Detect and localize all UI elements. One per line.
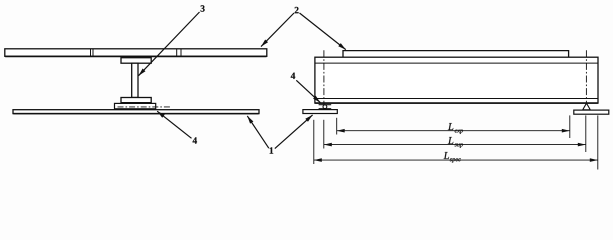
- extension line A specimen left: [313, 120, 315, 164]
- extension line C exp left: [336, 118, 338, 135]
- leader line 1 to support plate: [275, 115, 313, 149]
- label 2: [295, 7, 299, 13]
- left support axis centreline: [323, 50, 325, 113]
- extension line E support right: [585, 115, 587, 152]
- dimension line L spec: [314, 159, 598, 161]
- bottom deck plate: [13, 110, 259, 114]
- leader line 4 left view: [157, 111, 191, 138]
- right support knife edge: [583, 103, 591, 110]
- extension line B support left: [323, 120, 325, 149]
- left support roller top plate: [319, 104, 332, 106]
- deck plate bottom edge emphasis: [13, 113, 258, 115]
- left view: top slab plate: [5, 49, 267, 57]
- beam bottom skin line: [315, 98, 597, 100]
- leader line 2 to left view: [261, 13, 294, 47]
- top plate joint 2: [177, 49, 181, 56]
- right support axis centreline: [585, 50, 587, 109]
- I-beam top flange: [121, 58, 151, 64]
- dimension line L exp: [337, 130, 570, 132]
- label 4 left view: [193, 137, 197, 143]
- left support bearing plate: [303, 110, 337, 114]
- right view: beam body: [315, 57, 598, 103]
- leader line 2 to right view: [300, 13, 346, 50]
- left support roller bottom plate: [319, 108, 332, 110]
- extension line D exp right: [569, 115, 571, 138]
- beam bottom edge emphasis: [315, 102, 598, 104]
- leader line 1 to deck plate: [247, 116, 268, 148]
- label 4 right view: [291, 73, 295, 79]
- dimension label L spec: [444, 152, 461, 162]
- dimension label L sup: [448, 137, 463, 148]
- dimension line L sup: [324, 144, 586, 146]
- beam top skin line: [315, 62, 597, 64]
- left support roller: [323, 105, 327, 109]
- bottom flange bottom edge emphasis: [121, 102, 151, 104]
- extension line F specimen right: [597, 115, 599, 169]
- packing plate under bottom flange: [115, 103, 156, 108]
- right support bearing plate: [574, 110, 609, 114]
- I-beam web: [132, 63, 138, 97]
- leader line 3: [139, 12, 200, 76]
- top plate joint 1: [91, 49, 94, 56]
- I-beam bottom flange: [121, 98, 151, 103]
- leader line 4 right view: [296, 80, 320, 102]
- dimension label L exp: [448, 123, 463, 134]
- top load plate: [343, 51, 569, 58]
- top plate bottom edge emphasis: [5, 55, 266, 57]
- packing plate centreline: [118, 106, 172, 108]
- label 1: [270, 147, 273, 153]
- label 3: [201, 5, 205, 11]
